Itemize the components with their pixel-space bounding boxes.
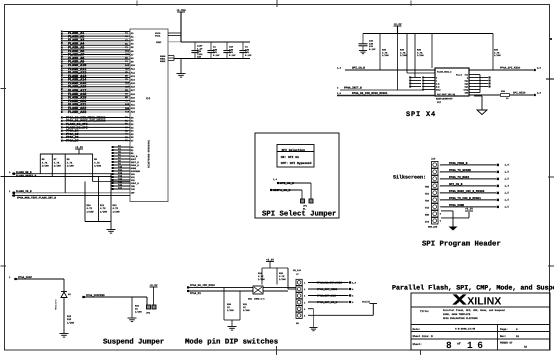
svg-text:1,5: 1,5 [505, 206, 510, 209]
svg-text:VREF: VREF [156, 41, 162, 44]
svg-text:1,5: 1,5 [505, 178, 510, 181]
svg-text:FPGA_CMP_CS_B: FPGA_CMP_CS_B [317, 301, 338, 304]
svg-text:1/16W: 1/16W [400, 54, 407, 57]
svg-text:Rev:: Rev: [500, 335, 506, 338]
svg-text:AB9: AB9 [125, 107, 130, 110]
svg-text:4-8-2008_14:48: 4-8-2008_14:48 [455, 327, 476, 330]
svg-text:Sheet Size: B: Sheet Size: B [413, 335, 434, 338]
svg-text:1/16W: 1/16W [87, 210, 95, 213]
svg-text:1,5: 1,5 [505, 171, 510, 174]
svg-text:Title:: Title: [420, 310, 429, 313]
svg-text:A13: A13 [131, 75, 136, 78]
svg-text:1/16W: 1/16W [382, 54, 389, 57]
svg-text:+3.3V: +3.3V [394, 23, 402, 26]
svg-text:TMS: TMS [425, 186, 430, 189]
svg-text:SPI_CS_B: SPI_CS_B [449, 183, 463, 186]
svg-text:1,4: 1,4 [337, 67, 342, 70]
svg-text:AB4: AB4 [125, 67, 130, 70]
svg-text:1,5: 1,5 [337, 92, 342, 95]
svg-text:1/16W: 1/16W [42, 165, 50, 168]
svg-text:AA8: AA8 [125, 103, 130, 106]
svg-text:TDO: TDO [425, 200, 430, 203]
svg-text:1,9: 1,9 [505, 164, 510, 167]
svg-text:FPGA_M0_CMP_MISO: FPGA_M0_CMP_MISO [190, 284, 215, 287]
svg-text:FLASH_WE_B: FLASH_WE_B [16, 171, 32, 174]
svg-text:1,4: 1,4 [505, 185, 510, 188]
svg-text:FLASH_RESET_B: FLASH_RESET_B [16, 175, 37, 178]
svg-text:FPGA_SPI_MISO: FPGA_SPI_MISO [500, 67, 521, 70]
svg-text:T10: T10 [125, 110, 130, 113]
svg-text:3V3: 3V3 [425, 221, 430, 224]
svg-text:1/16W: 1/16W [279, 278, 286, 281]
svg-text:OFF: SPI Bypassed: OFF: SPI Bypassed [281, 161, 312, 165]
svg-text:FPGA_M2_CMP_MOSI: FPGA_M2_CMP_MOSI [317, 281, 342, 284]
svg-text:A19: A19 [131, 96, 136, 99]
svg-text:1/16W: 1/16W [135, 311, 142, 314]
svg-text:SPI X4: SPI X4 [406, 111, 436, 119]
svg-text:A12: A12 [131, 71, 136, 74]
svg-text:A17: A17 [131, 89, 136, 92]
svg-text:4SMZ-1-C: 4SMZ-1-C [254, 298, 265, 301]
svg-text:AA1: AA1 [125, 50, 130, 53]
svg-text:A10: A10 [131, 64, 136, 67]
svg-text:Page:: Page: [500, 328, 508, 331]
svg-text:FPGA_MOD_TEST_FLASH_INT_B: FPGA_MOD_TEST_FLASH_INT_B [17, 196, 56, 199]
svg-text:FPGA_INIT_B: FPGA_INIT_B [344, 86, 362, 89]
svg-text:T17: T17 [118, 187, 123, 190]
svg-text:1,4: 1,4 [273, 178, 278, 181]
svg-text:Date:: Date: [413, 328, 421, 331]
svg-text:M25P16VMF6TP: M25P16VMF6TP [436, 98, 453, 101]
svg-text:0.1UF: 0.1UF [213, 54, 220, 57]
svg-text:A11: A11 [131, 68, 136, 71]
svg-text:1,5: 1,5 [505, 199, 510, 202]
svg-text:R35: R35 [501, 90, 506, 93]
svg-text:XC3S700AN-4FGG484C: XC3S700AN-4FGG484C [148, 140, 151, 168]
svg-text:A15: A15 [131, 82, 136, 85]
svg-text:Sheet:: Sheet: [413, 343, 422, 346]
svg-text:FPGA_PROG_B: FPGA_PROG_B [449, 162, 468, 165]
svg-text:TDI: TDI [425, 193, 430, 196]
svg-text:AA6: AA6 [125, 82, 130, 85]
svg-text:A22: A22 [131, 107, 136, 110]
svg-text:FPGA_D7: FPGA_D7 [66, 140, 79, 143]
svg-text:PENDR 87: PENDR 87 [500, 341, 513, 344]
svg-text:FPGA_CMP_MISO: FPGA_CMP_MISO [317, 288, 338, 291]
svg-text:JP2: JP2 [146, 312, 151, 315]
svg-text:SPI_MISO: SPI_MISO [513, 92, 526, 95]
svg-text:1,5: 1,5 [505, 192, 510, 195]
svg-text:SPI Program Header: SPI Program Header [422, 240, 501, 249]
svg-text:1/16W: 1/16W [113, 210, 121, 213]
svg-text:1/16W: 1/16W [94, 165, 102, 168]
svg-text:2,5: 2,5 [537, 67, 542, 70]
svg-text:SPI Selection: SPI Selection [282, 148, 306, 152]
svg-text:VCC1: VCC1 [155, 35, 161, 38]
svg-text:of: of [457, 342, 461, 346]
svg-text:FLASH_CE_B: FLASH_CE_B [16, 190, 32, 193]
svg-text:2,5: 2,5 [537, 92, 542, 95]
svg-text:J14: J14 [431, 158, 436, 161]
svg-text:1/16W: 1/16W [100, 210, 108, 213]
svg-text:C28: C28 [197, 56, 202, 59]
svg-text:S3AN, 6050 TEMPLATE: S3AN, 6050 TEMPLATE [443, 313, 471, 316]
svg-text:16: 16 [467, 340, 487, 351]
svg-text:HDR_2X5: HDR_2X5 [428, 226, 438, 229]
svg-text:TCK: TCK [425, 207, 430, 210]
svg-text:0.1UF: 0.1UF [229, 54, 236, 57]
svg-text:FPGA_CMP_CLK: FPGA_CMP_CLK [317, 294, 336, 297]
svg-text:+3.3V: +3.3V [150, 284, 158, 287]
svg-text:1/16W: 1/16W [67, 321, 75, 324]
svg-text:GND2: GND2 [160, 60, 166, 63]
svg-text:AB7: AB7 [125, 85, 130, 88]
svg-text:Suspend Jumper: Suspend Jumper [103, 338, 164, 347]
svg-text:FPGA_SUSPEND: FPGA_SUSPEND [86, 294, 105, 297]
svg-text:8: 8 [446, 340, 452, 351]
svg-text:AB2: AB2 [125, 53, 130, 56]
svg-text:+3.3VA: +3.3VA [176, 9, 186, 12]
svg-text:1/16W: 1/16W [243, 309, 250, 312]
svg-text:A20: A20 [131, 100, 136, 103]
svg-text:Parallel Flash, SPI, CMP, Mode: Parallel Flash, SPI, CMP, Mode, and Susp… [443, 309, 505, 312]
svg-text:0.1UF: 0.1UF [245, 54, 252, 57]
svg-text:A21: A21 [131, 104, 136, 107]
svg-text:A2: A2 [524, 346, 528, 349]
svg-text:A23: A23 [131, 111, 136, 114]
svg-text:FPGA_TX_MOSI: FPGA_TX_MOSI [449, 176, 469, 179]
svg-text:+3.3V: +3.3V [266, 258, 274, 261]
svg-text:FPGA_SUSP: FPGA_SUSP [18, 276, 32, 279]
svg-text:SPI_CS_B: SPI_CS_B [352, 67, 365, 70]
svg-text:1/16W: 1/16W [227, 309, 234, 312]
svg-text:FPGA_DONE: FPGA_DONE [449, 204, 464, 207]
svg-text:1,5: 1,5 [352, 281, 357, 284]
svg-text:FLASH_MOSI_D: FLASH_MOSI_D [437, 71, 452, 74]
svg-text:SPI Select Jumper: SPI Select Jumper [262, 210, 336, 219]
svg-text:+3.3V: +3.3V [465, 207, 473, 210]
svg-text:Silkscreen:: Silkscreen: [393, 175, 426, 181]
svg-text:SP3A EVALUATION PLATFORM: SP3A EVALUATION PLATFORM [443, 317, 478, 320]
svg-text:1/16W: 1/16W [494, 54, 501, 57]
svg-text:A14: A14 [131, 78, 136, 81]
svg-text:1/16W: 1/16W [417, 54, 424, 57]
svg-text:VCC(5): VCC(5) [362, 301, 370, 304]
svg-text:CLK DOUT VSS DQ: CLK DOUT VSS DQ [437, 93, 456, 96]
svg-text:1/16W: 1/16W [67, 165, 75, 168]
svg-text:1/16W: 1/16W [54, 165, 62, 168]
svg-text:AA3: AA3 [125, 64, 130, 67]
svg-text:GND: GND [425, 214, 430, 217]
svg-text:1/16W: 1/16W [258, 278, 265, 281]
svg-text:MMSZ4678: MMSZ4678 [55, 299, 58, 310]
svg-text:U17: U17 [437, 101, 442, 104]
svg-text:SW1: SW1 [248, 298, 253, 301]
svg-text:A1: A1 [516, 335, 520, 338]
svg-text:0.1UF: 0.1UF [369, 48, 376, 51]
svg-text:A18: A18 [131, 93, 136, 96]
svg-text:SW_1x6: SW_1x6 [293, 269, 302, 272]
svg-text:XILINX: XILINX [467, 295, 501, 307]
svg-text:A16: A16 [131, 86, 136, 89]
svg-text:Parallel Flash, SPI, CMP, Mode: Parallel Flash, SPI, CMP, Mode, and Susp… [392, 285, 554, 293]
svg-text:FLASH_A23: FLASH_A23 [68, 110, 86, 115]
svg-text:FLA_D: FLA_D [456, 74, 463, 77]
svg-text:FPGA_TX_SPARE: FPGA_TX_SPARE [449, 169, 471, 172]
svg-text:+3.3V: +3.3V [75, 146, 83, 149]
svg-text:FPGA_TX_CSO_B_MISO1: FPGA_TX_CSO_B_MISO1 [449, 197, 481, 200]
svg-text:ON: SPI On: ON: SPI On [281, 156, 299, 159]
svg-text:FPGA_MOSI_CSI_B_MISO0: FPGA_MOSI_CSI_B_MISO0 [449, 190, 485, 193]
svg-text:Mode pin DIP switches: Mode pin DIP switches [185, 338, 278, 347]
svg-text:FPGA_M1: FPGA_M1 [190, 292, 201, 295]
svg-text:FPGA_D0_DIN_MISO_MISO1: FPGA_D0_DIN_MISO_MISO1 [352, 92, 388, 95]
